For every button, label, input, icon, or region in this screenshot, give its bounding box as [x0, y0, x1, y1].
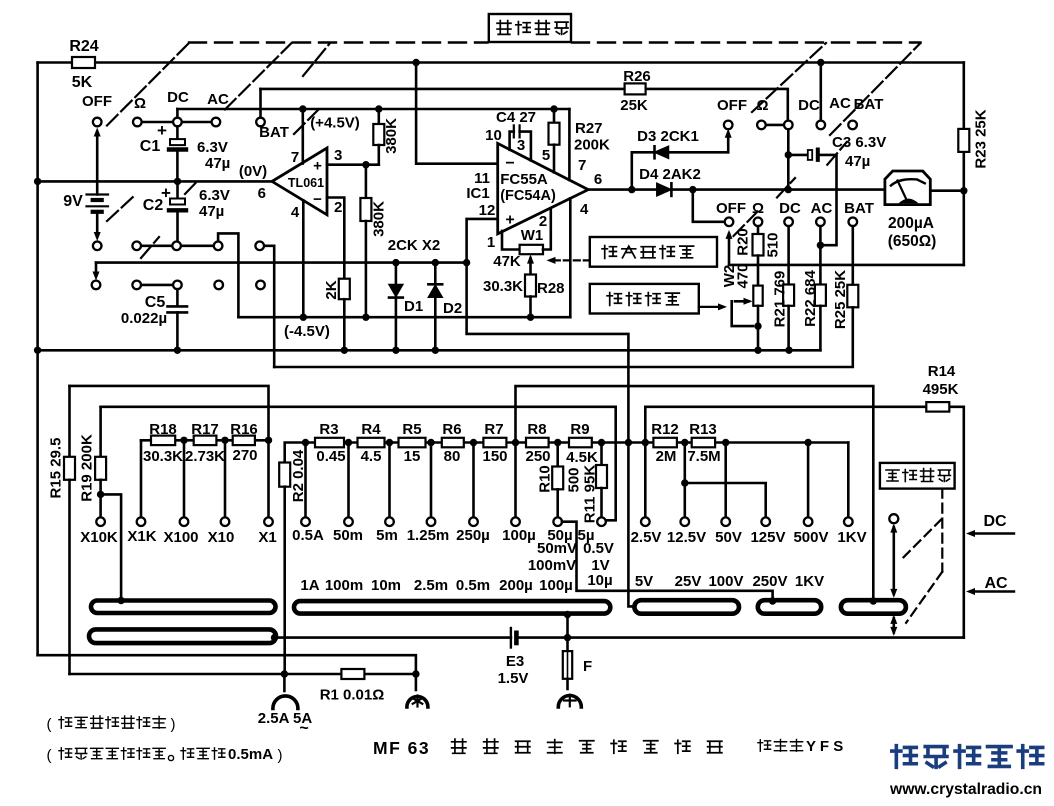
svg-text:100V: 100V — [708, 573, 743, 590]
switch contact OFF row1 right — [724, 121, 733, 130]
node: D1 / ground — [392, 347, 399, 354]
svg-text:R28: R28 — [537, 280, 565, 297]
resistor R14 495K — [926, 402, 949, 412]
svg-text:R16: R16 — [230, 421, 258, 438]
svg-text:MF 63: MF 63 — [373, 738, 430, 758]
wire: shunt resistor row — [306, 441, 646, 444]
resistor R7 150 — [483, 438, 506, 448]
svg-text:125V: 125V — [750, 529, 785, 546]
node: central vertical / row — [625, 439, 632, 446]
svg-text:0.5mA: 0.5mA — [228, 746, 273, 763]
node: meter + / R23 — [960, 187, 967, 194]
switch contact omega row2 left — [132, 242, 141, 251]
diode D1 — [395, 263, 398, 285]
svg-text:−: − — [313, 191, 322, 208]
svg-text:1KV: 1KV — [795, 573, 824, 590]
wire: AC row1 right up to top rail — [819, 63, 822, 121]
svg-text:1: 1 — [487, 234, 495, 251]
svg-text:6: 6 — [258, 185, 266, 202]
svg-text:C3 6.3V: C3 6.3V — [832, 134, 886, 151]
diode D2 — [434, 263, 437, 285]
svg-text:Y F S: Y F S — [806, 738, 843, 755]
wire: 0V rail — [38, 180, 272, 183]
range switch wiper arrows — [892, 527, 895, 594]
svg-text:9V: 9V — [63, 193, 83, 210]
wire: +4.5V supply line — [177, 108, 569, 111]
switch contact AC row1 left — [212, 118, 221, 127]
svg-text:BAT: BAT — [259, 124, 289, 141]
svg-text:W1: W1 — [521, 227, 544, 244]
switch contact OFF row2 left — [93, 242, 102, 251]
svg-text:5V: 5V — [635, 573, 653, 590]
wire: row1 left omega-DC-AC — [137, 121, 216, 124]
resistor R9 4.5K — [569, 438, 592, 448]
svg-text:X100: X100 — [163, 529, 198, 546]
svg-text:R7: R7 — [484, 421, 503, 438]
svg-text:47µ: 47µ — [845, 153, 870, 170]
potentiometer W1 47K — [502, 231, 520, 250]
wire: central vertical to ACV bar G — [628, 443, 634, 607]
svg-text:1.5V: 1.5V — [498, 670, 529, 687]
svg-text:250V: 250V — [752, 573, 787, 590]
svg-text:495K: 495K — [923, 381, 959, 398]
svg-text:(: ( — [47, 747, 52, 764]
dashed diagonal d6 (lower right OFF/omega row2) — [734, 212, 758, 237]
wire: voltage row R12 R13 — [645, 441, 848, 444]
switch contact AC row3 left — [214, 281, 223, 290]
node: pin3 / lower 380K — [362, 161, 369, 168]
dashed diagonal d10 (left rows2-3) — [141, 237, 159, 258]
svg-text:X10K: X10K — [80, 529, 118, 546]
svg-text:+: + — [313, 158, 322, 175]
node: C5 / ground rail — [174, 347, 181, 354]
switch contact omega row3 left — [132, 281, 141, 290]
switch contact DC row1 right — [784, 121, 793, 130]
svg-text:R6: R6 — [442, 421, 461, 438]
wire: BAT row1 left up to R26 line — [259, 89, 262, 118]
svg-text:R17: R17 — [191, 421, 219, 438]
switch contact omega row2 right — [754, 218, 763, 227]
wire: X1K vertical — [140, 440, 143, 517]
node: W2 wiper / bottom — [754, 322, 761, 329]
svg-text:4.5K: 4.5K — [566, 449, 598, 466]
wire: 250u vertical — [472, 443, 475, 518]
svg-text:200K: 200K — [574, 137, 610, 154]
switch contact X100 — [180, 517, 189, 526]
switch contact BAT row1 left — [256, 118, 265, 127]
wire: meter return line y=265 — [729, 264, 964, 267]
node: left vertical / 0V rail — [34, 178, 41, 185]
switch contact 50u — [553, 517, 562, 526]
node R12/R13/12.5V — [681, 439, 688, 446]
svg-text:R15 29.5: R15 29.5 — [47, 438, 64, 499]
node R8/R9/R10 — [554, 439, 561, 446]
svg-text:2.5V: 2.5V — [631, 529, 662, 546]
resistor 380K lower — [365, 165, 368, 198]
switch contact 1KV — [844, 517, 853, 526]
svg-text:): ) — [278, 747, 283, 764]
switch contact 125V — [761, 517, 770, 526]
svg-text:500: 500 — [565, 467, 582, 492]
node: top rail to IC1 inverting branch — [412, 59, 419, 66]
capacitor C4 27p — [510, 132, 514, 150]
wire: DC row1 left up to +4.5V line — [176, 109, 179, 118]
svg-text:R4: R4 — [361, 421, 381, 438]
node R13 right/50V — [722, 439, 729, 446]
wiper arrow at OFF row2 right to zero-adjust line — [728, 234, 731, 265]
switch contact omega row1 right — [757, 121, 766, 130]
svg-text:C1: C1 — [140, 138, 161, 155]
node: 0V rail / C1 C2 — [174, 178, 181, 185]
resistor R27 200K — [553, 109, 556, 123]
node: output / DC row1 right vertical — [785, 186, 792, 193]
svg-text:0.5A: 0.5A — [292, 527, 324, 544]
wire: AC row2 left to -4.5V rail — [218, 233, 238, 317]
wire: row3 left omega-DC — [137, 284, 178, 287]
wire: ohm divider row — [141, 439, 269, 442]
switch contact AC row1 right — [817, 121, 826, 130]
switch contact 50m — [344, 517, 353, 526]
logo crystalradio — [889, 746, 1043, 798]
svg-text:7: 7 — [578, 157, 586, 174]
resistor R1 0.01 ohm — [341, 669, 364, 679]
svg-text:AC: AC — [207, 91, 229, 108]
wire: 5m vertical — [388, 443, 391, 518]
capacitor C2 47u electrolytic — [176, 181, 179, 198]
switch contact 2.5V — [641, 517, 650, 526]
resistor R26 — [625, 83, 646, 94]
svg-text:R3: R3 — [319, 421, 338, 438]
node: R21 / ground rail — [785, 347, 792, 354]
svg-text:R1 0.01Ω: R1 0.01Ω — [320, 687, 385, 704]
switch contact BAT row2 right — [849, 218, 858, 227]
box 放大器调零 (amplifier zero) — [590, 237, 717, 267]
resistor R5 15 — [399, 438, 426, 448]
switch contact DC row2 left — [172, 242, 181, 251]
svg-text:200µA: 200µA — [888, 215, 934, 232]
svg-text:50V: 50V — [715, 529, 742, 546]
svg-text:1A: 1A — [300, 577, 319, 594]
dashed diagonal d1 — [107, 43, 189, 126]
resistor R21 769 — [787, 226, 790, 284]
node: top rail to AC row1 right — [817, 59, 824, 66]
svg-text:X1K: X1K — [127, 528, 156, 545]
svg-text:100µ: 100µ — [539, 577, 573, 594]
svg-text:R22 684: R22 684 — [802, 269, 819, 326]
function switch dashed plane line (left of box) — [189, 41, 488, 43]
switch contact 500V — [804, 517, 813, 526]
svg-text:X10: X10 — [208, 529, 235, 546]
wire: TL061 pin3 line — [327, 163, 379, 166]
node: bar I / voltage tap — [870, 597, 877, 604]
resistor R2 0.04 — [285, 443, 306, 463]
resistor R16 270 — [233, 436, 255, 446]
svg-text:4: 4 — [291, 204, 300, 221]
svg-text:12.5V: 12.5V — [667, 529, 706, 546]
op-amp TL061 — [272, 148, 327, 215]
svg-text:(FC54A): (FC54A) — [500, 188, 556, 204]
resistor R22 684 — [819, 226, 822, 284]
wire: 1KV vertical — [847, 443, 850, 518]
svg-text:+: + — [505, 212, 514, 229]
switch contact BAT row3 left — [256, 281, 265, 290]
op-amp IC1 FC55A — [498, 143, 589, 234]
svg-text:R26: R26 — [623, 68, 651, 85]
svg-text:47µ: 47µ — [199, 203, 224, 220]
wire: 50m vertical — [347, 443, 350, 518]
svg-text:50mV: 50mV — [537, 540, 577, 557]
resistor R6 80 — [442, 438, 464, 448]
svg-text:BAT: BAT — [854, 96, 884, 113]
svg-text:(0V): (0V) — [239, 163, 267, 180]
switch contact 100u — [511, 517, 520, 526]
svg-text:(+4.5V): (+4.5V) — [310, 115, 360, 132]
node R4/R5 — [386, 439, 393, 446]
svg-text:R9: R9 — [570, 421, 589, 438]
dashed diagonal d9 (left rows2-3) — [107, 196, 134, 221]
svg-text:R5: R5 — [402, 421, 421, 438]
node: bar A / R19 wire — [117, 597, 124, 604]
svg-text:2: 2 — [334, 199, 342, 216]
switch contact 50V — [721, 517, 730, 526]
svg-text:D3 2CK1: D3 2CK1 — [637, 128, 699, 145]
node: pin12 branch / D-top line — [463, 259, 470, 266]
node R5/R6 — [427, 439, 434, 446]
wire: long line R19 top to 5uA contact (y=407) — [101, 407, 616, 521]
switch bar G (ACV) — [634, 600, 739, 614]
wire: IC1 inverting input from top rail — [416, 63, 498, 164]
battery 9V — [87, 193, 109, 195]
switch contact OFF row1 left — [93, 118, 102, 127]
node: D2 top — [432, 259, 439, 266]
node R18/R17 — [180, 437, 187, 444]
svg-text:0.022µ: 0.022µ — [121, 310, 167, 327]
svg-text:7.5M: 7.5M — [687, 448, 720, 465]
node: C3 right / AC row2 vertical — [817, 242, 824, 249]
author — [758, 738, 843, 755]
wire: BAT row1 to R26 to DC row1 right — [261, 88, 625, 91]
svg-text:2K: 2K — [323, 280, 340, 299]
resistor R15 29.5 — [68, 386, 71, 457]
dashed diagonal d7 (near C3) — [777, 178, 795, 198]
resistor 2K — [339, 279, 350, 300]
wire: output to OFF row2 right — [693, 190, 724, 222]
svg-text:DC: DC — [983, 513, 1007, 530]
svg-text:5m: 5m — [376, 527, 398, 544]
wire: -4.5V rail — [238, 316, 570, 319]
note: new components unnumbered — [47, 716, 176, 733]
dashed diagonal d8 (near C3/BAT) — [827, 142, 847, 165]
resistor R24 — [72, 57, 95, 68]
dashed arrow to W1 wiper — [552, 259, 590, 261]
svg-text:6.3V: 6.3V — [197, 139, 228, 156]
svg-text:25V: 25V — [675, 573, 702, 590]
svg-text:C5: C5 — [145, 294, 166, 311]
wire: outer left vertical — [36, 63, 39, 656]
resistor R23 25K — [958, 129, 969, 152]
node: R1 right / * jack / boundary — [412, 670, 419, 677]
resistor R28 30.3K — [525, 275, 536, 297]
node 500V tap — [804, 439, 811, 446]
svg-text:OFF: OFF — [82, 93, 112, 110]
svg-text:2.73K: 2.73K — [185, 448, 225, 465]
dashed diagonal d11 (left row2) — [185, 181, 198, 195]
svg-text:AC: AC — [811, 200, 833, 217]
svg-text:R14: R14 — [928, 363, 956, 380]
switch contact omega row1 left — [133, 118, 142, 127]
dashed diagonal d2b — [303, 43, 330, 76]
svg-text:2M: 2M — [656, 448, 677, 465]
svg-text:2.5m: 2.5m — [414, 577, 448, 594]
svg-text:470: 470 — [734, 263, 751, 288]
switch contact 1.25m — [427, 517, 436, 526]
wire: 50u contact to AC-V bar H — [562, 522, 773, 601]
svg-text:(650Ω): (650Ω) — [888, 233, 937, 250]
wire: bottom left boundary — [38, 655, 416, 674]
resistor R18 30.3K — [151, 436, 175, 446]
node: R1 left / 2.5A jack / R2 — [281, 670, 288, 677]
switch contact DC row1 left — [173, 118, 182, 127]
jack * — [415, 674, 418, 690]
dashed diagonal d3 — [294, 106, 322, 134]
capacitor C1 47u electrolytic — [176, 126, 179, 139]
box 欧姆调零 (ohm zero) — [590, 284, 699, 314]
switch contact OFF row3 left — [92, 281, 101, 290]
switch contact X1 — [264, 517, 273, 526]
svg-text:380K: 380K — [383, 118, 400, 154]
svg-text:FC55A: FC55A — [500, 171, 548, 188]
svg-text:47K: 47K — [493, 253, 521, 270]
resistor R12 2M — [653, 438, 677, 448]
svg-text:BAT: BAT — [844, 200, 874, 217]
node: output / D3 right / OFF row2 — [689, 186, 696, 193]
node R17/R16 — [221, 437, 228, 444]
node: 2.5V / row — [642, 439, 649, 446]
node: W2 / ground rail — [754, 347, 761, 354]
function switch dashed plane line (right of box) — [572, 41, 921, 43]
svg-text:12: 12 — [479, 202, 496, 219]
svg-text:Ω: Ω — [134, 95, 146, 112]
resistor R10 500 — [556, 443, 559, 467]
capacitor C5 0.022u — [176, 289, 179, 306]
wire: X10 vertical — [224, 440, 227, 517]
switch contact X1K — [137, 517, 146, 526]
node: C3 left / DC row1 vertical — [785, 151, 792, 158]
svg-text:DC: DC — [798, 97, 820, 114]
node: bar F right / common line — [271, 634, 278, 641]
wire: 9V negative to OFF row2 with arrow — [96, 212, 99, 237]
svg-text:4: 4 — [580, 201, 589, 218]
switch contact 5m — [385, 517, 394, 526]
svg-text:C4 27: C4 27 — [496, 109, 536, 126]
wire: omega-DC row1 right — [761, 124, 788, 127]
wire: voltage tap (R7/R8) up and over to DCV bar I — [516, 386, 874, 600]
svg-text:250: 250 — [525, 448, 550, 465]
svg-text:Ω: Ω — [752, 200, 764, 217]
wire: IC1 output line to meter — [588, 188, 657, 191]
wire: R15 top to X1 node — [70, 386, 269, 440]
svg-text:5K: 5K — [72, 74, 93, 91]
switch contact X10 — [221, 517, 230, 526]
wire: TL061 pin7 stub to +4.5V — [301, 109, 304, 164]
svg-text:250µ: 250µ — [456, 527, 490, 544]
meter 200uA — [885, 171, 930, 205]
svg-text:50m: 50m — [333, 527, 363, 544]
battery E3 1.5V — [510, 628, 512, 648]
switch bar A (ohm row1) — [91, 601, 276, 614]
svg-text:7: 7 — [291, 149, 299, 166]
svg-text:10m: 10m — [371, 577, 401, 594]
svg-text:(: ( — [47, 716, 52, 733]
node: D1 top — [392, 259, 399, 266]
switch box 功能开关 — [489, 14, 571, 42]
switch contact 5u — [597, 517, 606, 526]
svg-text:DC: DC — [779, 200, 801, 217]
svg-text:R21 769: R21 769 — [771, 271, 788, 328]
svg-text:): ) — [171, 716, 176, 733]
svg-text:1KV: 1KV — [837, 529, 866, 546]
wire: R23 branch — [962, 63, 965, 129]
note: single supply 0.5mA — [47, 746, 283, 764]
node: +4.5V / 380K upper — [375, 105, 382, 112]
svg-text:10: 10 — [485, 127, 502, 144]
svg-text:IC1: IC1 — [466, 185, 489, 202]
svg-text:R24: R24 — [69, 38, 98, 55]
node: R28 / -4.5V rail — [527, 314, 534, 321]
wiper arrow at OFF row1 right — [727, 133, 730, 152]
svg-text:80: 80 — [444, 448, 461, 465]
node R6/R7 — [470, 439, 477, 446]
svg-text:3: 3 — [334, 147, 342, 164]
node: E3 line / fuse — [564, 634, 571, 641]
wiper arrow at OFF row1 left / 9V battery positive lead — [96, 132, 99, 195]
dashed diagonal d2 — [225, 43, 292, 110]
svg-text:R20: R20 — [734, 228, 751, 256]
switch contact 250u — [469, 517, 478, 526]
svg-text:(-4.5V): (-4.5V) — [284, 323, 330, 340]
dashed diagonal d4 (right, between omega/DC) — [752, 43, 826, 112]
svg-text:R8: R8 — [527, 421, 546, 438]
svg-text:6: 6 — [594, 171, 602, 188]
wire: IC1 pin4 stub / -4.5V rail end — [569, 198, 572, 317]
resistor 380K upper — [377, 109, 380, 124]
wire: node line D1 D2 tops / OFF row3 arrow — [96, 261, 467, 264]
switch bar H (250V/1KV) — [758, 600, 821, 614]
switch bar F (ohm row2) — [89, 629, 276, 643]
node R3/R4 — [345, 439, 352, 446]
resistor R3 0.45 — [315, 438, 344, 448]
svg-text:15: 15 — [404, 448, 421, 465]
wire: 0.5A vertical — [304, 443, 307, 518]
svg-text:6.3V: 6.3V — [199, 187, 230, 204]
resistor R17 2.73K — [194, 436, 217, 446]
title MF63 schematic — [373, 738, 722, 758]
svg-text:25K: 25K — [620, 97, 648, 114]
svg-text:R19 200K: R19 200K — [78, 434, 95, 502]
wire: 500V vertical — [807, 443, 810, 518]
svg-text:~: ~ — [299, 720, 308, 737]
node 12.5V/125V branch — [681, 479, 688, 486]
svg-text:30.3K: 30.3K — [143, 448, 183, 465]
potentiometer W2 470 — [753, 286, 762, 306]
svg-text:100m: 100m — [325, 577, 363, 594]
svg-text:R13: R13 — [689, 421, 717, 438]
node: R19 / X10K / bar wire — [97, 491, 104, 498]
svg-text:5: 5 — [542, 147, 550, 164]
svg-text:X1: X1 — [258, 529, 276, 546]
svg-text:30.3K: 30.3K — [483, 278, 523, 295]
capacitor C3 47u electrolytic — [788, 154, 808, 157]
